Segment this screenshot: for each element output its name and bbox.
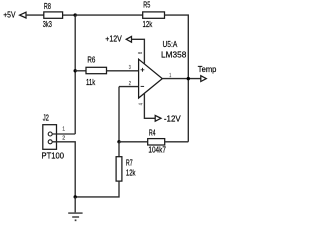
svg-text:R6: R6 [87, 55, 95, 64]
svg-text:12k: 12k [143, 20, 154, 29]
svg-text:104k7: 104k7 [148, 146, 166, 155]
node D junction dot [187, 77, 190, 80]
wire pin2 corner down to node B [118, 87, 120, 142]
wire R4 to right vertical [165, 141, 189, 143]
power flag -12V [155, 115, 181, 124]
wire R7 bottom to ground rail [75, 181, 119, 197]
svg-text:3: 3 [129, 65, 131, 71]
svg-text:1: 1 [62, 127, 65, 133]
wire J2 pin2 to corner and down [52, 142, 75, 197]
svg-text:Temp: Temp [198, 65, 217, 74]
svg-text:PT100: PT100 [42, 151, 65, 160]
resistor R7 [116, 157, 136, 181]
wire +5V arrow to R8 [26, 14, 44, 16]
svg-text:4: 4 [139, 103, 145, 105]
resistor R6 [86, 55, 107, 87]
node A junction dot [74, 13, 77, 16]
svg-text:+5V: +5V [3, 11, 16, 20]
svg-text:1: 1 [169, 73, 171, 79]
resistor R5 [143, 1, 165, 30]
wire node C to R6 [75, 70, 86, 72]
wire op-amp pin 4 down [144, 93, 155, 118]
power flag +12V [105, 34, 131, 43]
svg-text:R8: R8 [44, 2, 51, 11]
node E junction dot (ground) [74, 195, 77, 198]
wire node B to R4 [119, 141, 148, 143]
connector J2 [42, 114, 65, 161]
svg-text:J2: J2 [43, 114, 50, 123]
op-amp U5:A LM358 [139, 40, 187, 98]
node B junction dot [117, 140, 120, 143]
wire +12V to op-amp pin 8 [132, 39, 145, 64]
svg-text:R5: R5 [143, 1, 150, 10]
wire J2 pin1 to vertical [52, 133, 75, 135]
svg-text:12k: 12k [126, 169, 136, 178]
svg-text:11k: 11k [86, 78, 96, 87]
wire node A to R5 [75, 14, 143, 16]
svg-text:+12V: +12V [105, 34, 122, 43]
svg-text:R7: R7 [126, 158, 133, 167]
output flag Temp [198, 65, 217, 81]
resistor R4 [148, 129, 167, 155]
svg-text:U5:A: U5:A [163, 40, 178, 49]
svg-text:2: 2 [62, 135, 65, 141]
svg-text:R4: R4 [149, 129, 156, 138]
svg-text:8: 8 [138, 52, 144, 54]
svg-text:LM358: LM358 [161, 50, 187, 59]
power flag +5V [3, 11, 26, 20]
svg-text:-12V: -12V [164, 115, 181, 124]
wire op-amp pin 2 [119, 86, 139, 88]
svg-text:3k3: 3k3 [43, 20, 52, 29]
wire node B down to R7 [118, 142, 120, 157]
wire op-amp output [162, 78, 201, 80]
wire R5 to top right corner and down [165, 15, 189, 142]
wire R6 to op-amp pin 3 [107, 70, 139, 72]
resistor R8 [43, 2, 63, 29]
wire R8 to node A [63, 14, 76, 16]
node C junction dot [74, 69, 77, 72]
svg-text:2: 2 [129, 81, 131, 87]
wire vertical node A down to J2 pin1 [74, 15, 76, 134]
ground [68, 197, 82, 220]
